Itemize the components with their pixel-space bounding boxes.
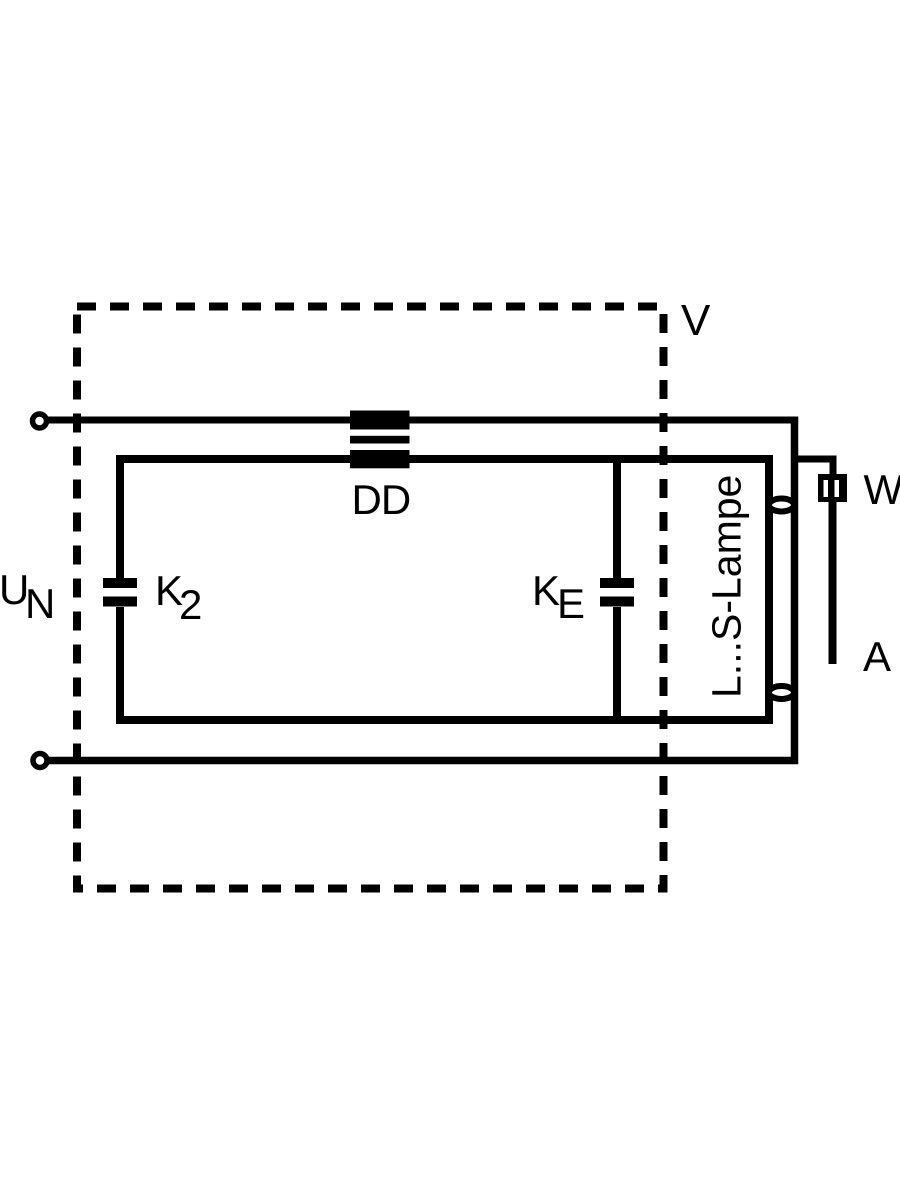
svg-text:L...S-Lampe: L...S-Lampe	[704, 475, 750, 698]
wire: inner top wire	[116, 455, 773, 463]
terminal top (input)	[33, 414, 47, 428]
lamp tube right wall / outer leads	[791, 417, 799, 765]
lamp tube left wall / inner leads	[765, 455, 773, 724]
svg-text:2: 2	[179, 581, 202, 628]
svg-text:W: W	[864, 466, 900, 513]
wire: branch to ignition aid W	[794, 459, 833, 477]
capacitor K2	[103, 578, 137, 588]
choke DD (series ballast bars on supply wires)	[350, 411, 410, 430]
svg-text:DD: DD	[352, 476, 411, 523]
wire: top supply wire from terminal to lamp	[46, 417, 798, 424]
wire: KE upper lead	[613, 455, 621, 578]
wire: KE lower lead	[613, 607, 621, 724]
lamp top electrode	[769, 499, 794, 512]
ballast enclosure V (dashed box)	[77, 307, 664, 889]
svg-text:E: E	[557, 580, 585, 627]
terminal bottom (input)	[33, 754, 47, 768]
svg-text:K: K	[532, 567, 560, 614]
svg-text:A: A	[863, 633, 891, 680]
wire: bottom supply wire from terminal to lamp	[46, 757, 798, 765]
winding contact W (square with slots)	[818, 474, 847, 502]
wire: left branch vertical (K2 lower lead)	[116, 607, 124, 724]
capacitor KE	[600, 578, 634, 588]
lamp bottom electrode	[769, 686, 794, 699]
ignition strip A	[829, 502, 837, 664]
wire: left branch vertical (K2 upper lead)	[116, 455, 124, 578]
wire: inner bottom wire	[116, 716, 773, 724]
svg-text:V: V	[681, 296, 711, 345]
svg-text:N: N	[25, 580, 55, 627]
